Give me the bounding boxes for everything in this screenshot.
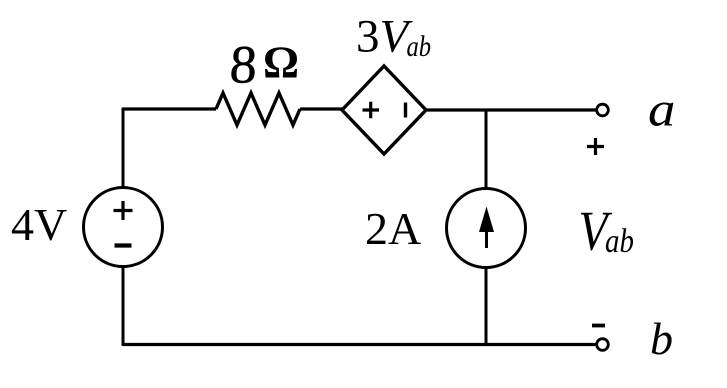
svg-text:4V: 4V [11, 199, 67, 250]
terminal a open circle [597, 104, 609, 116]
wire bottom horizontal [123, 343, 597, 346]
svg-text:a: a [648, 83, 675, 137]
svg-text:ab: ab [407, 30, 432, 63]
minus bar inside diamond [404, 103, 407, 118]
svg-text:b: b [650, 313, 673, 364]
dependent voltage source 3Vab diamond [342, 66, 426, 154]
terminal b open circle [597, 339, 609, 351]
minus sign near terminal b [592, 324, 605, 328]
wire middle vertical top (to 2A source) [485, 110, 488, 188]
wire left vertical top [122, 108, 125, 188]
current source 2A circle [447, 189, 526, 268]
wire diamond to terminal a [426, 108, 597, 111]
wire left vertical bottom [122, 267, 125, 347]
wire resistor to diamond [300, 107, 343, 110]
svg-text:ab: ab [605, 222, 634, 260]
svg-text:3V: 3V [356, 11, 414, 63]
wire middle vertical bottom [485, 268, 488, 347]
voltage source 4V circle [84, 188, 163, 267]
minus sign in 4V source [115, 243, 132, 247]
svg-text:8: 8 [228, 35, 258, 95]
plus sign in 4V source [114, 201, 133, 220]
svg-text:Ω: Ω [263, 38, 299, 88]
plus sign near terminal a [587, 138, 604, 155]
plus sign inside diamond [363, 102, 380, 118]
wire top-left horizontal [123, 107, 216, 110]
arrow inside 2A source [485, 226, 488, 248]
resistor 8 ohm zigzag [216, 93, 300, 125]
svg-text:2A: 2A [365, 203, 421, 254]
